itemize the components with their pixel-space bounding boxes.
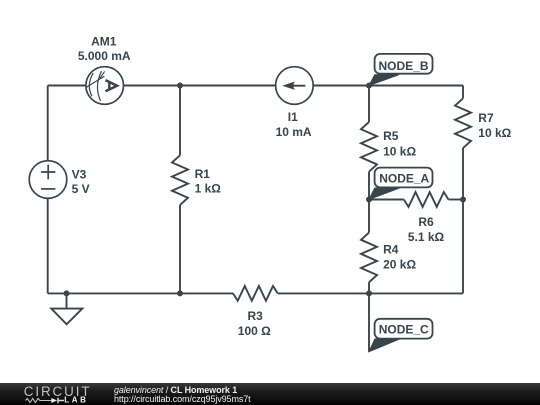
svg-text:R3: R3 — [248, 309, 264, 323]
resistor R1 — [172, 155, 221, 205]
svg-text:R7: R7 — [478, 111, 494, 125]
svg-text:V3: V3 — [72, 168, 87, 182]
I1 arrow shaft — [291, 85, 305, 87]
svg-text:NODE_A: NODE_A — [379, 171, 429, 185]
wire R1 branch upper — [179, 86, 181, 156]
wire R5 branch upper — [368, 86, 370, 123]
CircuitLab logo — [0, 383, 110, 405]
I1 arrow head — [282, 82, 295, 90]
svg-text:R5: R5 — [383, 129, 399, 143]
V3 plus sign — [41, 165, 55, 179]
junction dot R1 bottom — [177, 290, 183, 296]
wire R1 branch lower — [179, 205, 181, 293]
voltage source V3 — [29, 161, 89, 199]
resistor R4 — [361, 233, 416, 283]
svg-text:10 mA: 10 mA — [276, 125, 312, 139]
svg-text:R6: R6 — [418, 215, 434, 229]
wire right rail middle — [462, 148, 464, 199]
ground triangle — [51, 309, 82, 325]
NODE_C pointer tail — [369, 339, 400, 352]
svg-text:5.000 mA: 5.000 mA — [78, 49, 131, 63]
resistor R5 — [361, 122, 416, 172]
R1 zigzag body — [172, 155, 188, 205]
wire R6 left stub — [369, 199, 404, 201]
svg-text:10 kΩ: 10 kΩ — [383, 144, 416, 158]
AM1 needle barb — [100, 71, 105, 78]
wire R4 branch upper — [368, 200, 370, 233]
svg-text:AM1: AM1 — [91, 35, 117, 49]
node NODE_B — [369, 54, 433, 86]
footer bar — [0, 383, 540, 405]
AM1 letter A (rotated) — [106, 80, 118, 91]
R7 zigzag body — [455, 98, 471, 148]
AM1 meter arc 1 — [89, 73, 93, 96]
R6 zigzag body — [404, 192, 449, 207]
svg-text:R1: R1 — [195, 167, 211, 181]
svg-text:I1: I1 — [288, 110, 298, 124]
junction dot R6 right — [460, 197, 466, 203]
junction dot R1 top — [177, 83, 183, 89]
NODE_B pointer tail — [369, 75, 399, 86]
node NODE_A — [369, 168, 433, 200]
svg-text:R4: R4 — [383, 242, 399, 256]
ground stub — [66, 293, 68, 308]
svg-text:NODE_C: NODE_C — [379, 322, 429, 336]
wire right rail upper — [462, 86, 464, 99]
V3 minus sign — [41, 188, 55, 190]
wire node C stub — [368, 293, 370, 351]
wire R6 right stub — [449, 199, 464, 201]
R3 zigzag body — [233, 286, 278, 301]
svg-text:5 V: 5 V — [72, 182, 90, 196]
AM1 meter arc 2 — [97, 71, 101, 101]
NODE_C box — [375, 319, 433, 339]
wire left rail — [47, 86, 49, 294]
svg-text:NODE_B: NODE_B — [378, 59, 428, 73]
svg-text:20 kΩ: 20 kΩ — [383, 258, 416, 272]
svg-text:10 kΩ: 10 kΩ — [478, 126, 511, 140]
svg-text:1 kΩ: 1 kΩ — [195, 182, 222, 196]
wire bottom right segment — [278, 292, 463, 294]
junction dot NODE_B — [366, 83, 372, 89]
svg-text:100 Ω: 100 Ω — [238, 324, 271, 338]
R5 zigzag body — [361, 122, 377, 172]
ammeter AM1 — [78, 35, 131, 105]
junction dot NODE_C — [366, 290, 372, 296]
wire R4 branch lower — [368, 282, 370, 293]
current source I1 — [276, 67, 314, 139]
NODE_B box — [375, 54, 433, 74]
node NODE_C — [369, 319, 433, 352]
junction dot NODE_A — [366, 197, 372, 203]
V3 circle — [29, 161, 67, 199]
wire top rail — [48, 85, 463, 87]
resistor R6 — [404, 192, 449, 244]
I1 circle — [276, 67, 314, 105]
AM1 needle — [87, 76, 105, 87]
svg-text:5.1 kΩ: 5.1 kΩ — [408, 230, 445, 244]
resistor R7 — [455, 98, 512, 148]
NODE_A pointer tail — [369, 188, 400, 199]
junction dot ground — [64, 290, 70, 296]
AM1 circle — [86, 67, 124, 105]
resistor R3 — [233, 286, 278, 338]
wire right rail lower — [462, 200, 464, 294]
ground — [51, 293, 82, 324]
NODE_A box — [375, 168, 433, 188]
wire R5 branch lower — [368, 172, 370, 200]
svg-text:LAB: LAB — [64, 396, 88, 405]
R4 zigzag body — [361, 233, 377, 283]
wire bottom left segment — [48, 292, 233, 294]
attribution text — [114, 386, 251, 405]
